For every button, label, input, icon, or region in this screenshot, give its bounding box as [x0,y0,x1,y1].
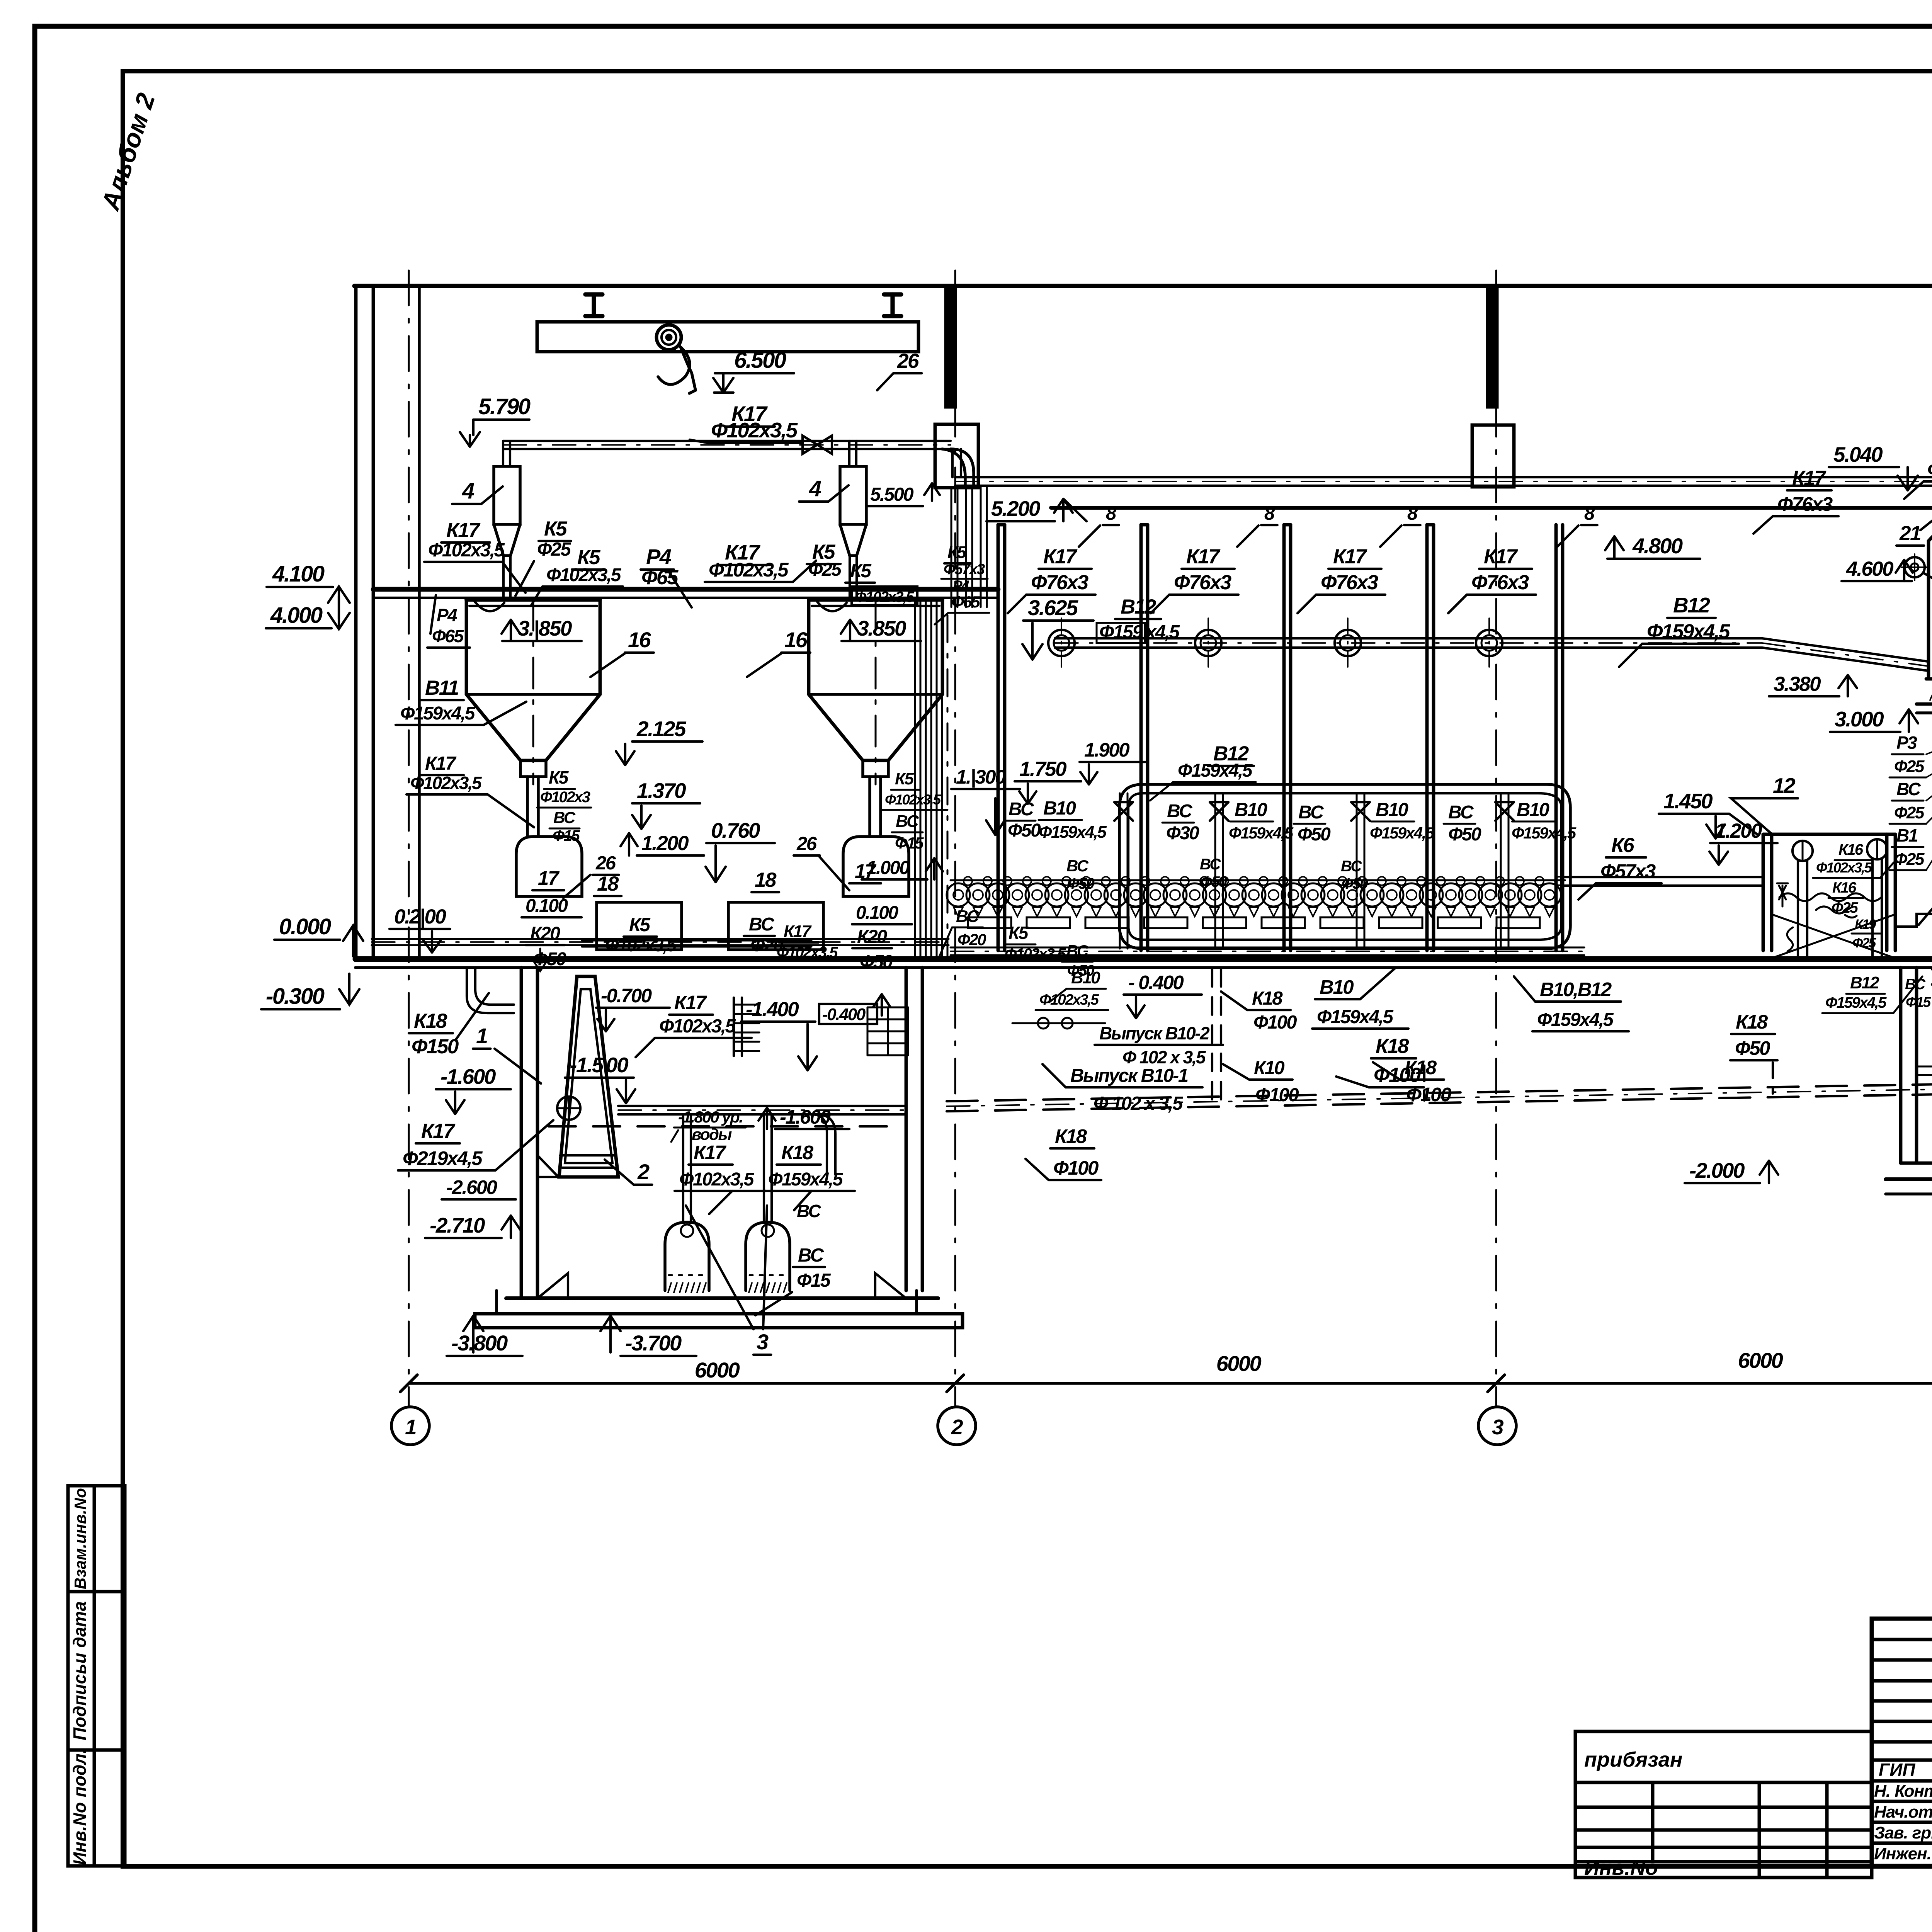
svg-text:Ф76х3: Ф76х3 [1777,493,1833,515]
svg-text:Ф159х4,5: Ф159х4,5 [1317,1007,1394,1027]
svg-text:ВС: ВС [797,1201,821,1221]
svg-text:Ф50: Ф50 [1201,874,1227,890]
svg-text:3.625: 3.625 [1028,595,1078,620]
svg-text:Инжен.: Инжен. [1874,1844,1931,1863]
svg-text:В11: В11 [425,677,458,699]
svg-text:-1.400: -1.400 [746,998,799,1021]
svg-text:Ф219х4,5: Ф219х4,5 [403,1147,483,1169]
svg-text:Ф102х3,5: Ф102х3,5 [1816,860,1873,876]
svg-text:К18: К18 [1252,988,1283,1009]
svg-text:-0.400: -0.400 [822,1005,866,1024]
svg-text:Ф159х4,5: Ф159х4,5 [1039,823,1107,842]
svg-text:Ф159х4,5: Ф159х4,5 [1647,620,1731,643]
svg-text:4: 4 [809,476,821,501]
svg-text:В12: В12 [1121,595,1156,618]
svg-text:К17: К17 [425,753,457,774]
svg-text:Взам.инв.No: Взам.инв.No [71,1488,89,1589]
svg-text:Ф50: Ф50 [1342,876,1368,892]
svg-text:Ф102х3,5: Ф102х3,5 [709,559,789,581]
svg-text:В12: В12 [1673,593,1710,617]
svg-text:Ф50: Ф50 [1008,820,1041,841]
svg-text:Ф100: Ф100 [1253,1012,1297,1033]
svg-text:26: 26 [897,350,919,372]
svg-text:1: 1 [476,1024,487,1048]
svg-text:Ф15: Ф15 [1906,994,1931,1010]
svg-text:-1.800 ур.: -1.800 ур. [678,1108,742,1126]
svg-text:В10: В10 [1376,799,1408,820]
svg-text:-0.300: -0.300 [266,984,325,1009]
svg-text:В12: В12 [1850,973,1879,992]
svg-text:Ф102х3,6: Ф102х3,6 [1927,459,1932,480]
svg-text:4.600: 4.600 [1846,558,1893,580]
svg-text:1.900: 1.900 [1084,739,1129,761]
svg-text:0.760: 0.760 [711,818,760,842]
svg-text:К18: К18 [414,1010,447,1032]
svg-text:8: 8 [1106,503,1117,524]
svg-text:Ф25: Ф25 [537,539,571,560]
svg-text:ВС: ВС [749,914,775,935]
svg-text:К20: К20 [857,927,887,947]
svg-text:ГИП: ГИП [1879,1760,1915,1780]
svg-text:-1.600: -1.600 [780,1106,831,1128]
svg-text:К18: К18 [1736,1011,1768,1033]
svg-text:ВС: ВС [1341,858,1362,875]
svg-text:Ф50: Ф50 [1448,824,1481,845]
svg-text:2.125: 2.125 [636,717,687,741]
svg-text:К17: К17 [1186,545,1221,568]
svg-text:4.000: 4.000 [270,603,323,628]
svg-text:К17: К17 [694,1141,727,1163]
svg-text:12: 12 [1773,774,1796,798]
svg-text:ВС: ВС [553,808,576,827]
svg-text:В10: В10 [1071,968,1100,987]
svg-text:Ф102х3,5: Ф102х3,5 [679,1169,755,1190]
svg-text:Ф102х3,5: Ф102х3,5 [1005,946,1066,963]
svg-text:К10: К10 [1254,1058,1284,1078]
svg-text:ВС: ВС [1066,942,1089,960]
svg-text:Ф159х4,5: Ф159х4,5 [1229,824,1294,842]
svg-text:Ф 102 х 3,5: Ф 102 х 3,5 [1122,1047,1206,1067]
svg-text:К17: К17 [421,1120,456,1143]
svg-text:Ф76х3: Ф76х3 [1031,571,1088,594]
svg-text:16: 16 [628,628,651,652]
svg-text:В10: В10 [1043,798,1076,819]
svg-text:-1.600: -1.600 [440,1065,496,1088]
svg-text:Ф102х3,5: Ф102х3,5 [410,773,482,793]
svg-text:К17: К17 [1484,545,1518,568]
svg-text:Альбом 2: Альбом 2 [95,90,160,214]
svg-text:ВС: ВС [1009,799,1034,820]
svg-text:Ф25: Ф25 [1894,757,1925,776]
svg-text:Н. Контр.: Н. Контр. [1874,1782,1932,1801]
svg-text:К17: К17 [446,519,481,542]
svg-text:Ф159х4,5: Ф159х4,5 [400,703,476,724]
svg-text:ВС: ВС [896,812,919,831]
svg-text:2: 2 [951,1415,963,1439]
svg-text:Ф159х4,5: Ф159х4,5 [768,1169,844,1190]
svg-text:Ф159х4,5: Ф159х4,5 [1370,824,1435,842]
svg-text:Ф25: Ф25 [1832,900,1859,916]
svg-text:1.370: 1.370 [637,779,686,803]
svg-text:1.200: 1.200 [1715,820,1762,842]
svg-text:Инв.No: Инв.No [1584,1856,1658,1879]
svg-text:Ф57х3: Ф57х3 [1600,860,1656,882]
svg-text:К19: К19 [1855,917,1876,932]
svg-text:3.000: 3.000 [1835,707,1884,731]
svg-text:ВС: ВС [1167,801,1193,821]
svg-text:4.100: 4.100 [272,561,325,587]
svg-text:В10: В10 [1320,976,1354,998]
svg-text:6000: 6000 [1216,1351,1262,1376]
svg-text:17: 17 [538,867,560,889]
svg-text:В10: В10 [1517,799,1549,820]
svg-text:3: 3 [1492,1415,1503,1439]
svg-text:К18: К18 [781,1141,814,1163]
svg-text:1.000: 1.000 [866,857,910,878]
svg-text:ВС: ВС [1896,779,1921,799]
svg-text:ВС: ВС [1200,856,1221,873]
svg-text:1: 1 [405,1415,416,1439]
svg-text:Ф57х3: Ф57х3 [944,561,985,578]
svg-text:6000: 6000 [695,1358,740,1382]
svg-text:3.|850: 3.|850 [518,616,572,640]
svg-text:х4,5: х4,5 [1145,622,1180,643]
svg-text:К5: К5 [549,767,569,787]
svg-text:0.2|00: 0.2|00 [394,905,446,928]
svg-text:Ф25: Ф25 [1894,803,1925,822]
svg-text:-0.700: -0.700 [601,985,652,1007]
svg-text:К5: К5 [1009,923,1029,943]
svg-text:Ф76х3: Ф76х3 [1471,571,1529,594]
svg-text:6000: 6000 [1738,1348,1783,1372]
svg-text:К5: К5 [850,561,872,582]
svg-text:8: 8 [1264,503,1275,524]
svg-text:Ф102х3,5: Ф102х3,5 [546,565,622,585]
svg-text:Ф25: Ф25 [1894,850,1925,869]
svg-text:К17: К17 [1333,545,1367,568]
svg-text:К5: К5 [629,915,651,935]
svg-text:1.750: 1.750 [1019,758,1066,781]
svg-text:Ф65: Ф65 [432,626,464,646]
svg-text:1.200: 1.200 [641,832,689,855]
svg-text:00: 00 [606,1053,629,1077]
svg-text:К17: К17 [674,992,707,1014]
svg-text:К5: К5 [895,769,914,788]
svg-text:Ф20: Ф20 [957,930,986,949]
svg-text:Ф76х3: Ф76х3 [1321,571,1378,594]
svg-text:В10: В10 [1235,799,1267,820]
svg-text:ВС: ВС [798,1245,824,1266]
svg-text:Ф50: Ф50 [1067,875,1094,892]
svg-text:Ф102х3,5: Ф102х3,5 [1039,992,1099,1008]
svg-text:К18: К18 [1055,1125,1087,1147]
svg-text:Ф102х3,5: Ф102х3,5 [659,1016,736,1037]
svg-text:8: 8 [1584,503,1595,524]
svg-text:ВС: ВС [1066,857,1089,875]
svg-text:Ф100: Ф100 [1053,1157,1099,1179]
svg-text:5.790: 5.790 [478,394,531,419]
svg-text:Ф159х4,5: Ф159х4,5 [1825,994,1887,1011]
svg-text:2: 2 [637,1160,650,1184]
svg-text:6.500: 6.500 [734,348,786,373]
svg-text:Ф159х4,5: Ф159х4,5 [1512,824,1577,842]
svg-text:3.850: 3.850 [857,616,906,640]
svg-text:3: 3 [757,1330,769,1354]
svg-text:Ф15: Ф15 [797,1270,831,1291]
svg-text:-2.710: -2.710 [430,1213,485,1237]
svg-text:К18: К18 [1376,1035,1409,1058]
svg-text:Ф25: Ф25 [1852,935,1876,951]
svg-text:26: 26 [796,833,817,854]
svg-text:Ф100: Ф100 [1374,1064,1421,1087]
svg-text:4: 4 [462,478,474,503]
svg-text:прибязан: прибязан [1584,1748,1682,1771]
svg-text:3.380: 3.380 [1774,673,1821,696]
svg-text:К20: К20 [530,923,560,944]
svg-text:Ф102х3: Ф102х3 [540,789,590,806]
svg-text:0.100: 0.100 [856,903,898,923]
svg-text:Ф102х3,5: Ф102х3,5 [428,540,505,561]
svg-text:Подписьи дата: Подписьи дата [70,1601,90,1740]
svg-text:0.000: 0.000 [279,914,331,939]
svg-text:Ф50: Ф50 [1298,824,1331,845]
svg-text:ВС: ВС [1298,802,1324,823]
svg-text:Нач.отд.: Нач.отд. [1874,1803,1932,1821]
svg-text:Инв.No подл.: Инв.No подл. [70,1748,90,1865]
svg-text:Ф159х4,5: Ф159х4,5 [1537,1009,1614,1030]
svg-text:ВС: ВС [1448,802,1474,823]
svg-text:Зав. гр.: Зав. гр. [1874,1823,1932,1842]
svg-text:-3.800: -3.800 [451,1331,508,1355]
svg-text:18: 18 [755,869,777,891]
svg-text:1.450: 1.450 [1663,789,1713,813]
svg-text:К16: К16 [1832,879,1857,896]
svg-text:0.100: 0.100 [526,896,568,916]
svg-text:К17: К17 [1043,545,1078,568]
svg-text:-2.600: -2.600 [446,1176,497,1198]
svg-text:В10,В12: В10,В12 [1540,978,1612,1000]
svg-text:К17: К17 [1792,467,1827,490]
svg-text:8: 8 [1407,503,1418,524]
svg-text:Ф159: Ф159 [1099,622,1143,643]
svg-text:Выпуск В10-1: Выпуск В10-1 [1070,1065,1188,1086]
svg-text:-2.000: -2.000 [1689,1158,1745,1182]
svg-text:Ф102х3,5: Ф102х3,5 [885,792,942,808]
svg-text:Ф50: Ф50 [1735,1037,1770,1059]
svg-text:Ф15: Ф15 [895,834,924,852]
svg-text:-3.700: -3.700 [625,1331,682,1355]
svg-text:Р4: Р4 [437,605,457,625]
svg-text:К16: К16 [1838,841,1864,858]
svg-text:К5: К5 [544,517,568,540]
svg-text:Р4: Р4 [646,544,672,569]
svg-text:16: 16 [784,628,808,652]
svg-text:4.800: 4.800 [1632,534,1683,558]
svg-text:5.200: 5.200 [991,497,1041,520]
svg-text:21: 21 [1899,522,1920,545]
svg-text:В1: В1 [1896,825,1918,845]
svg-text:Ф102х3,5: Ф102х3,5 [711,418,798,442]
svg-text:- 0.400: - 0.400 [1128,971,1184,993]
svg-text:К6: К6 [1611,834,1634,857]
svg-text:5.500: 5.500 [870,484,913,505]
svg-text:Ф159х4,5: Ф159х4,5 [1178,760,1253,781]
svg-text:Ф76х3: Ф76х3 [1174,571,1231,594]
svg-text:26: 26 [595,853,616,874]
svg-text:5.040: 5.040 [1833,442,1883,466]
svg-text:-1.5: -1.5 [570,1053,604,1077]
svg-text:Ф25: Ф25 [808,560,842,580]
svg-text:Ф30: Ф30 [1166,823,1199,844]
svg-text:Выпуск В10-2: Выпуск В10-2 [1099,1023,1210,1043]
svg-text:Р3: Р3 [1896,733,1917,753]
svg-text:Ф150: Ф150 [412,1035,459,1058]
